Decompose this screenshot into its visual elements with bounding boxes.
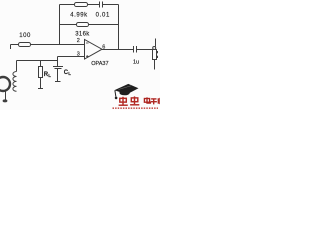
svg-text:3: 3 — [77, 51, 80, 57]
svg-text:OPA37: OPA37 — [91, 61, 108, 67]
svg-text:2: 2 — [77, 38, 80, 44]
svg-text:6: 6 — [102, 45, 105, 51]
svg-text:4.99k: 4.99k — [70, 12, 88, 18]
svg-text:0.01: 0.01 — [96, 12, 110, 18]
svg-text:316k: 316k — [75, 32, 90, 38]
svg-text:L: L — [48, 73, 51, 78]
svg-text:L: L — [68, 71, 71, 76]
svg-text:1u: 1u — [133, 59, 139, 65]
svg-text:100: 100 — [19, 33, 31, 39]
